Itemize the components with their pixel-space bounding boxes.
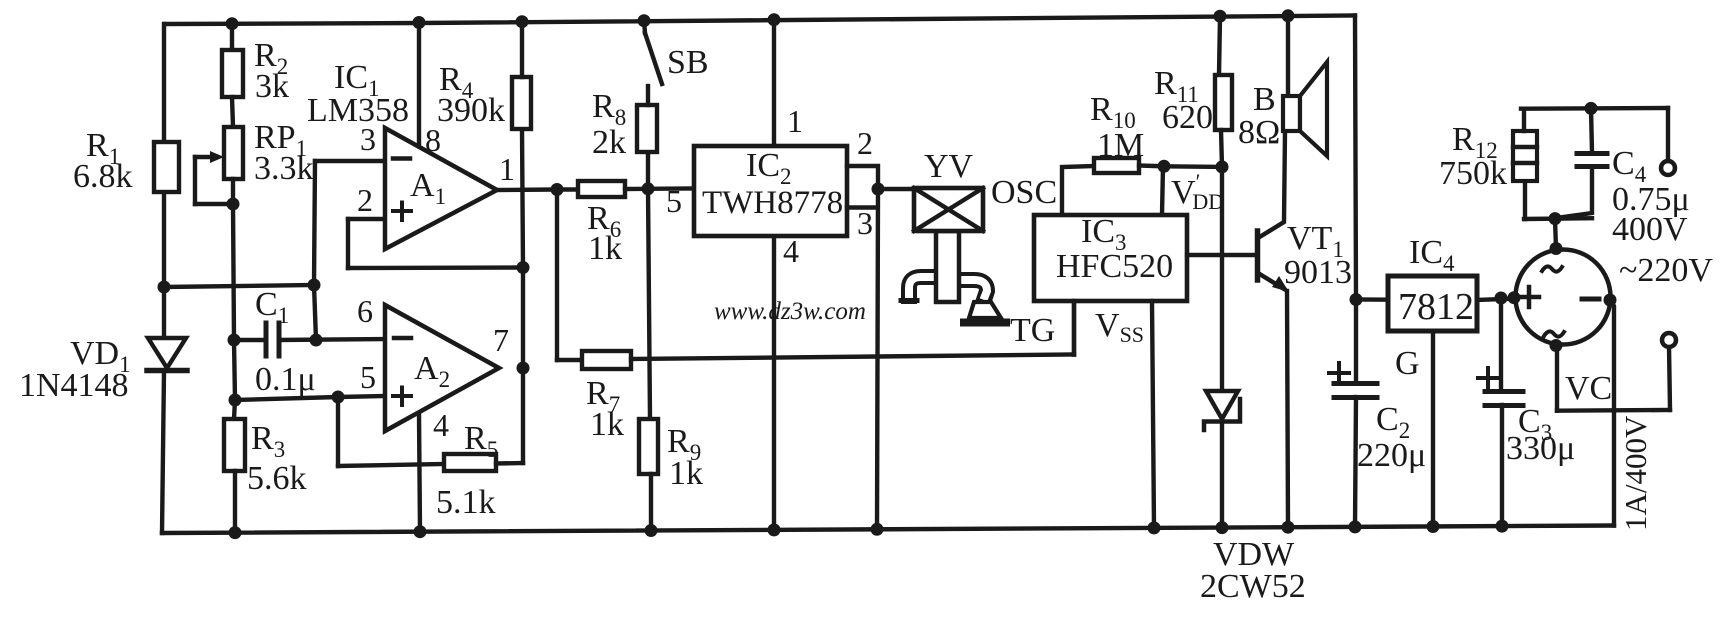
resistor R12 [1513, 131, 1537, 181]
wire node down to C2 [1354, 300, 1358, 383]
wire A2 feedback bottom row [338, 464, 444, 466]
node RP1 wiper [227, 198, 240, 211]
wire C2 to ground bus [1355, 397, 1356, 527]
wire A1 output down to R7 [555, 190, 559, 361]
wire RP1 wiper to column [195, 202, 233, 206]
node ground bus emitter [1282, 521, 1295, 534]
bridge tilde top [1542, 266, 1562, 271]
svg-text:220μ: 220μ [1357, 437, 1426, 474]
svg-text:620: 620 [1162, 99, 1213, 136]
node top bus IC2 pin1 [768, 13, 781, 26]
node A1 output [551, 183, 564, 196]
node top bus R2 [226, 17, 239, 30]
wire zener to ground bus [1220, 424, 1224, 528]
wire R11 node down to zener [1220, 167, 1224, 390]
wire C1 node to pin5 node [234, 340, 235, 400]
wire IC3 VSS pin to ground [1152, 301, 1154, 528]
wire VT1 emitter to ground bus [1287, 291, 1288, 527]
wire R12 bottom lead [1523, 181, 1527, 219]
node R1/VD1 junction [158, 281, 171, 294]
node pin5 feedback corner [332, 391, 345, 404]
wire RP1 wiper down [193, 157, 197, 204]
IC4 7812 box [1388, 276, 1477, 331]
svg-text:OSC: OSC [991, 174, 1057, 211]
wire R10 node to R11 node [1164, 164, 1222, 169]
svg-text:B: B [1253, 81, 1276, 118]
valve YV (solenoid) [901, 188, 1006, 323]
node bridge left terminal [1508, 291, 1521, 304]
wire VC row [1557, 408, 1670, 413]
resistor R6 [578, 181, 625, 197]
svg-text:750k: 750k [1439, 155, 1507, 192]
svg-text:www.dz3w.com: www.dz3w.com [714, 298, 866, 325]
node bridge bottom terminal [1550, 339, 1563, 352]
node ground bus R3 [229, 526, 242, 539]
wire R4 top lead [520, 22, 524, 78]
wire pin3 column down to C1 right [314, 285, 316, 340]
wire node to IC4 input [1356, 297, 1388, 302]
terminal AC upper (open circle) [1661, 161, 1675, 175]
node R12/C4 bottom [1549, 212, 1562, 225]
svg-text:1k: 1k [590, 406, 624, 443]
node top bus R11 [1214, 10, 1227, 23]
wire left column bottom (VD1 to ground bus) [162, 371, 164, 533]
node ground bus IC2 pin4 [768, 523, 781, 536]
wire node A horizontal (R1/VD1 junction to pin3 column) [164, 285, 314, 287]
svg-text:VC: VC [1565, 370, 1612, 407]
resistor R11 [1215, 75, 1232, 130]
wire R8 top contact stub [646, 86, 650, 105]
wire R8 bottom lead [646, 152, 650, 189]
node ground bus YV [871, 523, 884, 536]
wire pin5 feedback down [336, 397, 340, 466]
resistor R3 [224, 419, 245, 471]
svg-text:HFC520: HFC520 [1056, 248, 1173, 285]
wire RP1 bottom to C1 node [233, 179, 234, 340]
node top bus pin8 [413, 16, 426, 29]
node pin3 branch [308, 279, 321, 292]
svg-text:TG: TG [1010, 312, 1055, 349]
resistor RP1 (potentiometer) [224, 127, 243, 179]
bridge tilde bottom [1544, 331, 1564, 336]
wire A1 pin2 horizontal [348, 217, 385, 221]
wire R5 right lead [496, 461, 523, 466]
node A2 output [517, 362, 530, 375]
wire SB to top bus [644, 21, 645, 33]
svg-text:2k: 2k [592, 124, 626, 161]
resistor R4 [512, 77, 531, 129]
resistor R10 [1094, 158, 1139, 173]
C3 plus sign [1478, 368, 1498, 388]
wire AC top row [1521, 106, 1668, 111]
node R11/VDD [1216, 160, 1229, 173]
op-amp A1 (IC1) [385, 128, 497, 249]
svg-text:6.8k: 6.8k [73, 158, 133, 195]
IC2 TWH8778 box [694, 146, 847, 236]
capacitor C2 (electrolytic) [1334, 384, 1377, 398]
wire top bus right corner down to IC4 node [1355, 16, 1356, 300]
svg-text:2CW52: 2CW52 [1200, 568, 1306, 605]
svg-text:1k: 1k [588, 230, 622, 267]
svg-text:2: 2 [857, 125, 873, 161]
node A1 feedback / R4 [517, 261, 530, 274]
wire R6 to R8 node [625, 187, 648, 192]
wire node to valve YV [878, 187, 914, 191]
wire IC2 pin2 step [847, 166, 878, 189]
svg-text:3k: 3k [255, 68, 289, 105]
wire RP1 wiper arrow [195, 155, 216, 159]
svg-text:1A/400V: 1A/400V [1618, 415, 1653, 531]
node R10/VDD [1158, 160, 1171, 173]
wire bridge bottom terminal down [1555, 346, 1559, 411]
wire R4 bottom lead [522, 129, 523, 268]
wire R8 node to IC2 pin5 [648, 186, 694, 191]
svg-text:G: G [1395, 345, 1420, 382]
resistor R2 [222, 50, 243, 97]
node top bus SB [638, 14, 651, 27]
wire R12 top lead [1522, 109, 1526, 131]
wire R10 right lead [1139, 163, 1164, 168]
svg-text:9013: 9013 [1284, 254, 1352, 291]
wire IC4 G pin to ground [1431, 331, 1435, 527]
node top bus R4 [516, 15, 529, 28]
wire R12/C4 bottom row [1524, 216, 1592, 221]
svg-text:6: 6 [357, 293, 373, 329]
node C3 branch [1495, 292, 1508, 305]
resistor R9 [639, 419, 658, 474]
wire IC3 OSC pin up and left to R10 [1062, 166, 1094, 215]
wire A1 pin8 vertical [417, 22, 421, 147]
wire R2 to RP1 [232, 97, 233, 127]
IC3 HFC520 box [1034, 215, 1187, 301]
wire IC4 output to bridge [1477, 299, 1517, 301]
svg-text:400V: 400V [1612, 211, 1688, 248]
node R6/R8/R9 [642, 182, 655, 195]
node pin5 branch [229, 394, 242, 407]
svg-text:5: 5 [666, 183, 682, 219]
wire speaker top lead [1286, 16, 1290, 96]
switch SB blade [645, 33, 662, 84]
svg-text:YV: YV [924, 148, 974, 185]
resistor R5 [444, 454, 496, 471]
wire C1 left lead [234, 338, 264, 342]
svg-text:4: 4 [783, 233, 799, 269]
wire left column top (R1 to top bus) [162, 24, 166, 142]
rectifier bridge (round plug symbol) [1516, 250, 1611, 345]
wire top supply bus [165, 16, 1355, 25]
wire left column middle (R1 to VD1) [162, 192, 166, 337]
resistor R8 [637, 105, 657, 152]
svg-text:~220V: ~220V [1619, 252, 1713, 289]
wire bottom ground bus [162, 526, 1614, 534]
wire TG vertical to IC3 [1072, 300, 1076, 355]
wire bridge right output down (fuse line) [1610, 300, 1614, 526]
svg-text:5: 5 [360, 359, 376, 395]
wire C4 bottom lead [1556, 167, 1592, 218]
C2 plus sign [1329, 363, 1349, 383]
svg-text:5.6k: 5.6k [247, 460, 307, 497]
svg-text:2: 2 [357, 182, 373, 218]
node AC top row C4 [1585, 102, 1598, 115]
svg-text:1N4148: 1N4148 [19, 367, 129, 404]
wire bridge top terminal up [1555, 219, 1556, 249]
node IC2 pins 2-3 [872, 183, 885, 196]
svg-text:1M: 1M [1097, 127, 1144, 164]
wire R2 top lead [230, 24, 234, 51]
wire R11 bottom lead [1221, 130, 1222, 167]
node IC4 input [1350, 293, 1363, 306]
wire VDD prime vertical to IC3 [1162, 166, 1163, 215]
node ground bus C3 [1496, 520, 1509, 533]
wire A2 pin4 to ground [419, 414, 420, 532]
wire R7 to IC3 TG row [631, 355, 1074, 360]
svg-text:1k: 1k [669, 455, 703, 492]
wire IC2 pin1 vertical [772, 20, 776, 146]
node C1 left [228, 334, 241, 347]
svg-text:3: 3 [360, 121, 376, 157]
wire R3 to ground bus [233, 471, 237, 533]
svg-text:390k: 390k [437, 92, 505, 129]
wire A2 output up to feedback node [521, 268, 525, 369]
node ground bus VDW [1216, 521, 1229, 534]
wire R7 left lead [557, 358, 582, 362]
svg-text:3: 3 [857, 205, 873, 241]
wire R9 to ground bus [649, 474, 653, 531]
svg-text:3.3k: 3.3k [254, 150, 314, 187]
wire IC3 TG pin down [1072, 301, 1076, 355]
wire to AC terminal lower [1669, 346, 1670, 410]
wire R9 top (node to body) [648, 189, 650, 419]
wire C4 top lead [1591, 108, 1592, 152]
resistor R7 [582, 351, 631, 369]
wire A2 pin5 row [235, 396, 385, 400]
resistor R1 [154, 142, 179, 192]
node ground bus A2 pin4 [414, 525, 427, 538]
node bridge right terminal [1604, 294, 1617, 307]
svg-text:4: 4 [433, 407, 449, 443]
node ground bus VSS [1148, 521, 1161, 534]
svg-text:TWH8778: TWH8778 [702, 185, 843, 221]
wire pin5 node to R3 [234, 400, 235, 419]
wire A1 pin3 horizontal [315, 159, 385, 163]
svg-text:5.1k: 5.1k [436, 484, 496, 521]
svg-text:1: 1 [787, 103, 803, 139]
wire IC3 output to VT1 base [1187, 253, 1255, 257]
capacitor C4 [1577, 154, 1607, 167]
zener diode VDW [1204, 391, 1240, 430]
svg-text:0.1μ: 0.1μ [255, 361, 316, 398]
A2 non-inverting plus sign [393, 394, 411, 398]
svg-text:1: 1 [499, 151, 515, 187]
svg-text:LM358: LM358 [307, 92, 409, 129]
node ground bus R9 [645, 524, 658, 537]
node top bus speaker [1282, 9, 1295, 22]
A1 inverting input minus sign [393, 156, 410, 161]
node ground bus G [1427, 520, 1440, 533]
transistor VT1 collector [1258, 131, 1285, 238]
node ground bus C2 [1349, 520, 1362, 533]
wire C3 top lead [1499, 298, 1503, 390]
node C1 right [310, 334, 323, 347]
diode VD1 [147, 338, 187, 371]
svg-text:7: 7 [493, 322, 509, 358]
svg-text:8Ω: 8Ω [1238, 114, 1280, 151]
capacitor C3 (electrolytic) [1485, 392, 1523, 406]
wire C1 right lead to A2 pin6 [279, 339, 385, 340]
A2 inverting input minus sign [394, 336, 411, 341]
wire A1 feedback row [348, 265, 523, 270]
capacitor C1 [266, 323, 279, 356]
wire IC2 output node down to ground [877, 189, 878, 529]
transistor VT1 emitter [1258, 273, 1284, 289]
wire IC2 pin4 vertical [772, 236, 776, 530]
node bridge top terminal [1550, 242, 1563, 255]
terminal AC lower (open circle) [1662, 333, 1676, 347]
wire to AC terminal upper [1666, 108, 1670, 162]
wire R5 to A2 output [521, 368, 525, 463]
svg-text:330μ: 330μ [1506, 430, 1575, 467]
svg-text:7812: 7812 [1398, 286, 1474, 328]
wire IC2 pin3 stub [847, 205, 877, 209]
svg-text:8: 8 [425, 122, 441, 158]
wire C3 to ground bus [1500, 405, 1504, 526]
bridge minus [1582, 297, 1599, 302]
wire A1 output to R6 [497, 187, 578, 192]
speaker B [1283, 62, 1327, 156]
wire A1 pin2 down [346, 219, 350, 268]
bridge plus [1519, 287, 1539, 307]
wire pin3 column up [314, 161, 315, 285]
wire R11 top lead [1219, 17, 1220, 76]
transistor VT1 base bar [1255, 231, 1261, 280]
op-amp A2 (IC1) [385, 305, 499, 431]
svg-text:SB: SB [667, 44, 709, 81]
A1 non-inverting plus sign [393, 209, 411, 213]
